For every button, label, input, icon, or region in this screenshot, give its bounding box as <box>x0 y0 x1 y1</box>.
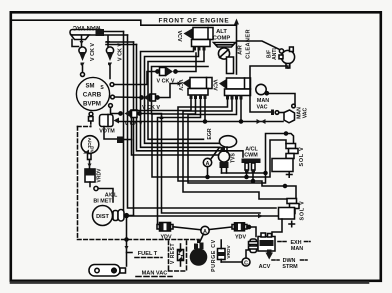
wire CKh-1 to VCV0 port <box>177 53 196 72</box>
carb bottom square port <box>89 117 94 122</box>
stem to check valve 1 <box>80 36 84 47</box>
solenoid SOL V 1 <box>272 144 298 172</box>
wire bar to lane D <box>106 44 137 46</box>
dashed stub below carb <box>90 122 92 127</box>
source MAN VAC circle <box>256 84 269 94</box>
svg-text:EGR: EGR <box>207 128 213 139</box>
svg-text:VAC: VAC <box>303 107 309 118</box>
connector on hex line <box>271 110 285 116</box>
wire node A to YDV2 <box>209 227 232 230</box>
label A/CL BI MET <box>93 193 118 205</box>
label EXH MAN <box>278 240 310 252</box>
svg-text:A: A <box>206 161 210 167</box>
svg-text:VCV: VCV <box>176 30 182 41</box>
svg-text:CARB: CARB <box>83 92 102 99</box>
svg-text:DIST: DIST <box>96 214 109 220</box>
svg-text:STRM: STRM <box>282 264 298 270</box>
svg-text:AIR: AIR <box>238 45 244 55</box>
svg-text:VCV: VCV <box>212 79 218 90</box>
distributor DIST <box>93 206 113 226</box>
wire lane F (VCV0 port to EGR valve) <box>145 48 220 143</box>
svg-text:DV: DV <box>90 146 95 153</box>
wire SOL V2 down to ACV <box>272 219 282 237</box>
svg-text:VRDV: VRDV <box>97 168 103 183</box>
svg-text:YDV: YDV <box>235 235 246 241</box>
alt bracket <box>227 57 234 74</box>
check valve CKh-3 <box>119 110 141 118</box>
wire VCV2L port1 to TVS row <box>132 100 219 156</box>
svg-text:BVPM: BVPM <box>83 101 101 108</box>
wire MAN VAC circle to hex <box>268 94 295 105</box>
wire lane B (to SOL V 2 region) <box>128 35 277 208</box>
dist vacuum advance fitting <box>113 210 128 222</box>
circled node A (EGR) <box>203 158 211 167</box>
dashed box (distributor group) <box>78 127 200 240</box>
svg-text:SM: SM <box>86 84 95 90</box>
valve A/CL DV <box>81 136 99 160</box>
wire YDV2 to ACV <box>247 225 256 236</box>
connector blob on bar <box>96 29 105 36</box>
stem to check valve 2 <box>106 36 110 47</box>
wire connector-right to lane B <box>104 34 128 36</box>
svg-text:ALT: ALT <box>216 29 227 35</box>
label MAN VAC (bottom) <box>136 271 172 277</box>
wire dist to bundle <box>128 215 134 217</box>
svg-text:ANTI: ANTI <box>272 48 278 60</box>
long manifold wire VOTM to MAN VAC hex <box>119 119 283 124</box>
label MAN VAC (hex, vertical) <box>297 107 309 119</box>
alt pump dish <box>214 43 236 48</box>
wire carb port1 to check valve row <box>114 72 156 85</box>
svg-text:SOL V: SOL V <box>300 200 306 220</box>
svg-text:YDV: YDV <box>160 235 171 241</box>
plus terminal SOL V2 <box>289 221 295 226</box>
wire VCV2R port3 to SOL V1 loop <box>188 100 294 184</box>
wire VCV2R port1 staircase to SOL V2 top <box>178 100 296 200</box>
label ANTI B/F <box>267 48 279 60</box>
wire VRDV1 to bimet circle <box>90 182 113 202</box>
air cleaner arrow line <box>234 19 239 75</box>
svg-text:V CK V: V CK V <box>118 43 124 61</box>
circled node C <box>242 258 250 266</box>
wire VCV2L port2 to SOL V1 coil <box>152 100 286 178</box>
wire bar-left down <box>72 40 79 47</box>
fuel tank line wire <box>125 215 133 267</box>
check valve CKh-2 <box>140 94 159 102</box>
label DWN STRM <box>272 258 307 270</box>
svg-text:B/F: B/F <box>267 50 273 58</box>
svg-text:VRDV: VRDV <box>226 245 232 259</box>
svg-text:V REST: V REST <box>170 243 176 264</box>
wire YDV1 to node A <box>173 227 201 230</box>
air control valve ACV <box>249 233 276 260</box>
label AIR CLEANER <box>238 29 252 59</box>
wire node A to purge cap <box>200 234 204 243</box>
thermal switch TVS <box>218 151 267 175</box>
check valve CK V teardrop 1 <box>79 47 86 72</box>
wire lane E (VCV0 port to TVS) <box>141 48 221 147</box>
label FUEL T <box>135 251 162 258</box>
wire carb port2 to CKh-2 <box>115 96 141 99</box>
wire lane C (to distributor junction) <box>133 42 135 216</box>
svg-text:SOL V: SOL V <box>299 146 305 166</box>
fuel tank capsule <box>89 265 126 277</box>
canister purge valve PURGE CV <box>190 248 208 266</box>
svg-text:FRONT OF ENGINE: FRONT OF ENGINE <box>159 18 230 25</box>
label ALT COMP <box>213 29 231 42</box>
wire node C to VRDV2 <box>221 261 242 263</box>
carburetor SM CARB BVPM <box>76 77 109 110</box>
svg-text:MAN VAC: MAN VAC <box>142 271 168 277</box>
solenoid SOL V 2 <box>279 199 300 220</box>
svg-text:V CK V: V CK V <box>90 43 96 61</box>
wire ANTI B/F down to hex line <box>250 66 288 112</box>
wire lane G (VCV0 port across) <box>148 48 204 139</box>
wire VCV2L port4 junction <box>204 100 207 124</box>
wire VCV2L port3 to YDV1 <box>158 100 201 227</box>
circled node A (lower) <box>201 226 209 235</box>
wire to ANTI B/F <box>237 41 280 50</box>
restrictor V REST <box>178 244 184 266</box>
svg-text:MAN: MAN <box>257 98 269 104</box>
fitting ANTI B/F <box>279 47 295 68</box>
wire CKh-3 to lane (down to SOL V 2) <box>141 114 260 214</box>
wire connector-right to lane A <box>104 31 124 33</box>
alt pump pulley circle <box>218 48 229 59</box>
engine boundary notch line <box>11 20 237 25</box>
svg-text:VOTM: VOTM <box>99 129 115 135</box>
carb port top <box>81 73 85 77</box>
svg-text:TVS: TVS <box>231 152 237 162</box>
label MAN VAC (circle) <box>257 98 270 111</box>
svg-text:COMP: COMP <box>213 36 231 42</box>
wire VCV2R port2 to SOL V2 valve <box>183 100 286 200</box>
svg-text:C: C <box>244 260 248 266</box>
wire node A to EGR valve <box>211 148 220 160</box>
svg-text:PURGE CV: PURGE CV <box>211 239 217 272</box>
svg-text:ACV: ACV <box>259 264 271 270</box>
wire bar to lane C <box>106 41 134 43</box>
wire node C up to ACV <box>246 250 251 258</box>
hex port <box>292 104 296 108</box>
delay valve VRDV 2 <box>218 240 226 262</box>
svg-text:BI MET: BI MET <box>93 199 112 205</box>
label A/CL CWM <box>244 147 258 159</box>
wire carb port3 to CKh-3 <box>111 108 120 114</box>
wire CKh-2 to VCV2L nozzle <box>159 82 182 98</box>
sensor bar (top-left inverted unit) <box>70 30 103 40</box>
delay valve VRDV 1 <box>85 169 95 182</box>
check valve CKh-1 <box>156 67 177 77</box>
wire elbow lane H (4th) <box>152 67 209 115</box>
svg-text:CLEANER: CLEANER <box>246 29 252 59</box>
valve VCV 2-right <box>219 78 251 100</box>
EGR valve <box>219 136 236 152</box>
dashed box (V REST group) <box>169 241 187 271</box>
delay valve YDV 2 <box>232 223 247 231</box>
motor VOTM <box>100 115 120 127</box>
svg-text:CWM: CWM <box>244 153 258 159</box>
valve VCV 2-left <box>183 78 213 100</box>
svg-text:FUEL T: FUEL T <box>138 251 158 257</box>
wire node A down <box>207 167 209 177</box>
valve VCV 0 (top) <box>184 28 214 51</box>
carb side ports <box>89 83 114 116</box>
wire A/CL DV to VRDV1 <box>88 160 92 169</box>
pump diaphragm (above PURGE CV) <box>194 240 204 250</box>
check valve CK V teardrop 2 <box>106 47 113 79</box>
delay valve YDV 1 <box>157 223 173 232</box>
svg-text:MAN: MAN <box>291 246 303 252</box>
wire lane A (to SOL V 2 coil) <box>124 32 279 219</box>
plus terminal SOL V1 <box>287 172 293 177</box>
svg-text:VAC: VAC <box>257 105 268 111</box>
wire VCV2R port4 to manifold line <box>240 100 243 124</box>
svg-text:VCV: VCV <box>177 79 183 90</box>
wire VOTM bottom port <box>104 127 132 144</box>
source MAN VAC hex <box>284 110 295 123</box>
choke pulloff A/CL CWM body <box>242 159 261 183</box>
wire lane D (to A/CL CWM leg) <box>137 45 244 158</box>
